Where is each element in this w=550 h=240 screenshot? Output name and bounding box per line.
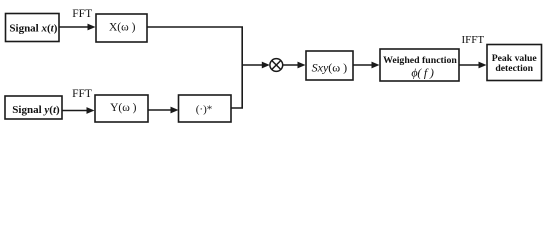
wire Y to conjugate [148,107,179,114]
block Signal y(t) [5,96,62,119]
block conjugate [179,95,232,122]
wire FFT arrow y [62,107,95,114]
svg-text:(·)*: (·)* [196,104,213,116]
svg-text:detection: detection [495,63,533,74]
block peak value detection [487,45,542,81]
wire multiplier to Sxy [283,62,306,69]
block weighed function [380,49,459,81]
svg-text:Sxy(ω ): Sxy(ω ) [312,61,348,75]
multiplier [270,59,283,72]
svg-text:Signal x(t): Signal x(t) [9,23,57,35]
wire Sxy to weighed function [353,62,380,69]
svg-text:X(ω ): X(ω ) [109,22,136,34]
wire junction to multiplier [242,62,270,69]
svg-text:FFT: FFT [72,8,92,20]
wire FFT arrow x [59,24,96,31]
wire X to junction [147,27,242,65]
block Y(w) [95,95,148,122]
svg-text:Weighed function: Weighed function [383,55,457,66]
svg-text:IFFT: IFFT [461,34,484,46]
svg-text:Y(ω ): Y(ω ) [110,102,137,114]
svg-text:Signal y(t): Signal y(t) [12,104,60,116]
wire conjugate to junction [231,65,242,108]
block Sxy(w) [306,51,353,80]
svg-text:ϕ( f ): ϕ( f ) [411,66,434,80]
wire IFFT arrow weighed to peak [459,62,487,69]
block X(w) [96,14,147,42]
block Signal x(t) [6,14,60,42]
svg-text:FFT: FFT [72,88,92,100]
